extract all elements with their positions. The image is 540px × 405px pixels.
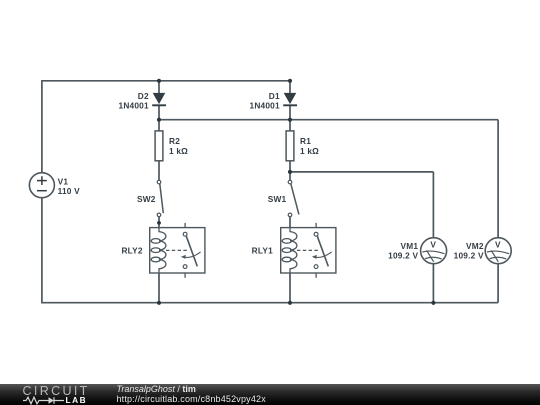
node VM1 bottom xyxy=(431,301,435,305)
CircuitLab logo text xyxy=(23,385,90,397)
node RLY2 bottom xyxy=(157,301,161,305)
relay RLY2 xyxy=(150,223,205,278)
wire VM1 bottom pin xyxy=(432,264,434,303)
wire D2 anode pin xyxy=(158,81,160,94)
svg-text:109.2 V: 109.2 V xyxy=(454,251,484,261)
relay contact lever xyxy=(317,236,328,266)
relay contact circles xyxy=(314,232,318,236)
svg-text:V: V xyxy=(495,239,501,249)
relay RLY1 xyxy=(281,223,336,278)
voltmeter VM2 xyxy=(485,238,511,264)
svg-text:1 kΩ: 1 kΩ xyxy=(169,146,188,156)
wire R1 bottom pin xyxy=(289,161,291,180)
wire D1 cathode pin xyxy=(289,106,291,120)
wire SW1 bottom pin xyxy=(289,217,291,228)
svg-text:1 kΩ: 1 kΩ xyxy=(300,146,319,156)
contact pin stub bottom xyxy=(184,273,186,278)
actuation arrow xyxy=(184,252,201,258)
node D1 bottom xyxy=(288,118,292,122)
resistor R1 xyxy=(286,131,319,161)
diode D2 xyxy=(119,91,166,111)
junction node dots xyxy=(157,79,436,305)
wire V1 bottom pin xyxy=(41,198,43,303)
footer credit line 1 xyxy=(117,385,196,394)
relay coil L1 xyxy=(282,227,297,273)
dashed actuation link xyxy=(297,249,320,251)
wire R2 bottom pin xyxy=(158,161,160,180)
wire SW2 bottom pin xyxy=(158,217,160,228)
contact pin stub top xyxy=(315,223,317,228)
wire V1 top pin xyxy=(41,81,43,172)
footer credit line 2 xyxy=(117,395,266,404)
relay contact lever xyxy=(186,236,197,266)
logo LAB text xyxy=(66,396,88,404)
node D1 top xyxy=(288,79,292,83)
wire R1 node to VM1 horizontal xyxy=(290,171,433,173)
node RLY1 bottom xyxy=(288,301,292,305)
voltage source V1 xyxy=(29,173,80,198)
svg-text:SW1: SW1 xyxy=(268,194,287,204)
wire VM1 top branch xyxy=(432,172,434,238)
svg-text:SW2: SW2 xyxy=(137,194,156,204)
wire RLY1 coil bottom pin xyxy=(289,273,291,303)
svg-text:V1: V1 xyxy=(58,176,69,186)
actuation arrow xyxy=(315,252,332,258)
node D2 top xyxy=(157,79,161,83)
contact pin stub top xyxy=(184,223,186,228)
svg-text:V: V xyxy=(430,239,436,249)
switch SW1 xyxy=(288,180,299,216)
wire bottom horizontal xyxy=(41,302,498,304)
wire VM2 top branch xyxy=(497,120,499,238)
svg-text:D1: D1 xyxy=(269,91,280,101)
logo resistor-diode glyph xyxy=(23,396,65,405)
voltmeter VM1 xyxy=(421,238,447,264)
relay contact circles xyxy=(183,232,187,236)
relay coil L2 xyxy=(151,227,166,273)
svg-text:109.2 V: 109.2 V xyxy=(388,251,418,261)
svg-text:110 V: 110 V xyxy=(58,186,80,196)
wire VM2 bottom pin xyxy=(497,264,499,303)
wire D1 anode pin xyxy=(289,81,291,94)
wire R1 top pin xyxy=(289,120,291,131)
svg-text:R2: R2 xyxy=(169,136,180,146)
wire RLY2 coil bottom pin xyxy=(158,273,160,303)
footer bar xyxy=(0,384,540,405)
svg-text:D2: D2 xyxy=(138,91,149,101)
resistor R2 xyxy=(155,131,188,161)
switch SW2 xyxy=(157,180,163,216)
diode D1 xyxy=(250,91,297,111)
node D2 bottom xyxy=(157,118,161,122)
svg-text:1N4001: 1N4001 xyxy=(250,100,280,110)
node SW2-RLY2 xyxy=(157,221,161,225)
svg-text:R1: R1 xyxy=(300,136,311,146)
svg-text:RLY1: RLY1 xyxy=(252,246,273,256)
wire R2 top pin xyxy=(158,120,160,131)
wire node-B horizontal xyxy=(159,119,498,121)
wire D2 cathode pin xyxy=(158,106,160,120)
dashed actuation link xyxy=(166,249,189,251)
contact pin stub bottom xyxy=(315,273,317,278)
svg-text:RLY2: RLY2 xyxy=(121,246,142,256)
svg-text:1N4001: 1N4001 xyxy=(119,100,149,110)
node R1-SW1-VM1 xyxy=(288,170,292,174)
wire top horizontal xyxy=(41,80,290,82)
